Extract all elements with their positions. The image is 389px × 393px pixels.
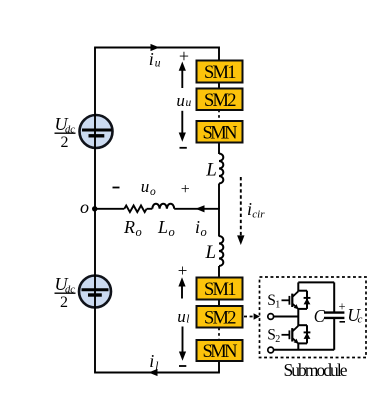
svg-text:C: C <box>314 306 326 326</box>
svg-text:L: L <box>205 242 217 263</box>
u_u minus sign <box>180 147 187 149</box>
wire lower inductor to SM1 <box>218 266 220 279</box>
svg-text:u: u <box>155 58 161 70</box>
svg-text:SM2: SM2 <box>204 309 237 329</box>
svg-text:o: o <box>136 225 142 239</box>
svg-text:u: u <box>186 97 192 109</box>
svg-text:+: + <box>181 181 190 198</box>
current arrow i_o <box>196 205 205 212</box>
dashed wire between upper SM2 and SMN <box>218 110 220 122</box>
svg-text:SMN: SMN <box>203 342 238 362</box>
svg-text:+: + <box>339 300 346 314</box>
wire between lower SM1 and SM2 <box>218 299 220 307</box>
u_l minus sign <box>179 365 186 367</box>
transistor S1 (IGBT with diode) <box>282 282 311 316</box>
svg-text:i: i <box>149 49 154 69</box>
SM box SMN (lower) <box>197 340 243 362</box>
battery bars inside V2 <box>82 290 109 295</box>
wire below upper SMN to inductor <box>218 143 220 155</box>
u_l down arrow <box>179 327 186 361</box>
source V2 (lower Udc/2) <box>79 276 111 308</box>
wire right vertical: top corner to SM1 <box>218 47 220 62</box>
capacitor C <box>324 282 344 349</box>
svg-text:u: u <box>141 177 150 196</box>
current arrow i_u on top wire <box>151 44 160 51</box>
wire inductor to junction <box>218 184 220 210</box>
transistor S2 (IGBT with diode) <box>282 317 311 350</box>
svg-text:2: 2 <box>275 334 280 345</box>
svg-text:SM1: SM1 <box>204 63 237 83</box>
inductor L (lower arm) <box>219 236 223 266</box>
label u_o <box>141 177 156 198</box>
label i_l <box>149 351 158 372</box>
svg-text:l: l <box>186 314 189 326</box>
svg-text:o: o <box>80 197 89 217</box>
SM box SM1 (upper) <box>197 61 243 84</box>
svg-text:Submodule: Submodule <box>284 360 348 380</box>
wire between upper SM1 and SM2 <box>218 82 220 89</box>
resistor R_o <box>124 206 146 213</box>
svg-text:i: i <box>195 217 200 237</box>
dashed arrow from SM2 to submodule <box>244 313 260 319</box>
wire midpoint rail <box>274 316 298 318</box>
wire below lower SMN to bottom wire <box>218 361 220 373</box>
dashed wire between lower SM2 and SMN <box>218 328 220 341</box>
SM box SM2 (upper) <box>197 89 243 112</box>
u_u up arrow <box>179 62 186 89</box>
u_l up arrow <box>178 277 185 298</box>
label L_o <box>157 217 175 239</box>
battery bars inside V1 <box>82 130 112 136</box>
wire between R_o and L_o <box>147 208 153 210</box>
svg-text:R: R <box>123 217 135 237</box>
svg-text:i: i <box>247 199 252 219</box>
circulating current dashed arrow i_cir <box>237 177 244 245</box>
svg-text:cir: cir <box>252 209 265 221</box>
wire bottom rail <box>274 349 334 351</box>
label i_u <box>149 49 161 70</box>
label Udc/2 (upper) <box>55 114 76 151</box>
terminal node bottom (open circle) <box>268 347 274 353</box>
wire top horizontal <box>94 47 219 49</box>
svg-text:L: L <box>205 160 217 181</box>
label U_c <box>347 305 362 326</box>
svg-text:c: c <box>358 314 363 326</box>
label u_u <box>176 91 191 110</box>
svg-text:o: o <box>150 186 156 198</box>
SM box SMN (upper) <box>197 121 243 144</box>
label i_cir <box>247 199 265 220</box>
svg-text:u: u <box>176 91 185 110</box>
wire junction to lower inductor <box>218 208 220 237</box>
svg-text:SMN: SMN <box>203 124 238 144</box>
wire L_o to right vertical <box>174 208 219 210</box>
label S1 <box>267 292 280 311</box>
svg-text:2: 2 <box>61 134 69 151</box>
label Udc/2 (lower) <box>55 274 76 311</box>
source V1 (upper Udc/2) <box>80 115 113 148</box>
submodule dashed box <box>260 277 367 358</box>
current arrow i_l on bottom wire <box>149 369 158 376</box>
svg-text:1: 1 <box>275 300 280 311</box>
svg-text:2: 2 <box>60 294 68 311</box>
inductor L_o <box>152 204 174 209</box>
svg-text:SM2: SM2 <box>204 91 237 111</box>
label R_o <box>123 217 142 239</box>
svg-text:+: + <box>179 46 189 66</box>
svg-text:o: o <box>169 225 175 239</box>
label S2 <box>267 327 280 346</box>
u_u down arrow <box>179 111 186 142</box>
label u_l <box>177 307 189 326</box>
capacitor minus sign <box>340 321 346 323</box>
terminal node top (open circle) <box>268 314 274 320</box>
svg-text:i: i <box>149 351 154 371</box>
wire bottom horizontal <box>94 372 220 374</box>
label minus of u_o <box>113 187 120 189</box>
inductor L (upper arm) <box>219 154 223 184</box>
wire top rail <box>298 281 334 283</box>
SM box SM2 (lower) <box>197 306 243 329</box>
svg-text:l: l <box>155 360 158 372</box>
SM box SM1 (lower) <box>197 278 243 301</box>
wire output branch left segment <box>95 208 125 210</box>
svg-text:o: o <box>201 225 207 239</box>
label i_o <box>195 217 207 239</box>
svg-text:L: L <box>157 217 168 237</box>
svg-text:SM1: SM1 <box>204 280 237 300</box>
svg-text:u: u <box>177 307 186 326</box>
wire left vertical <box>94 48 96 373</box>
svg-text:+: + <box>178 261 188 280</box>
node o dot <box>92 206 97 211</box>
